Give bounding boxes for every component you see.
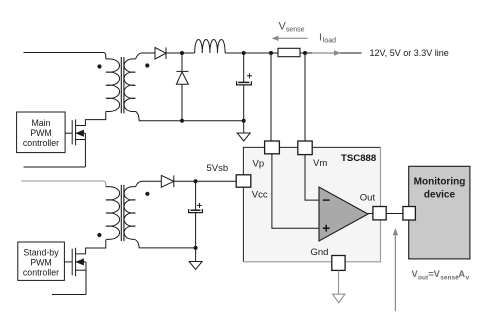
- svg-text:Gnd: Gnd: [311, 247, 329, 258]
- wire T2 secondary bottom lead: [136, 240, 196, 248]
- MOSFET Q1: [65, 119, 85, 167]
- transformer T1 core: [121, 57, 124, 113]
- ground main output: [237, 121, 250, 141]
- capacitor C2: [189, 181, 203, 248]
- wire Q1 source return rail: [24, 166, 86, 168]
- label Stand-by PWM controller: [23, 248, 59, 278]
- svg-text:Vp: Vp: [253, 159, 265, 170]
- wire T1 secondary bottom lead: [136, 111, 244, 120]
- svg-text:Out: Out: [360, 193, 376, 204]
- svg-text:=V: =V: [428, 269, 440, 279]
- arrow Iload direction: [312, 50, 341, 55]
- svg-text:Vm: Vm: [313, 158, 327, 169]
- wire opamp output: [368, 213, 373, 215]
- pin monitoring input: [403, 207, 416, 221]
- node junction standby bottom: [194, 246, 198, 250]
- svg-text:device: device: [424, 190, 456, 201]
- svg-text:PWM: PWM: [30, 128, 52, 138]
- arrow Vout (gray, up): [393, 228, 399, 311]
- node junction bottom rail x243.7: [242, 119, 246, 123]
- arrow Vsense direction: [272, 36, 308, 41]
- wire sense to Vp pin: [270, 53, 272, 141]
- wire 5Vsb rail: [174, 180, 236, 182]
- op-amp U1 triangle: [319, 187, 368, 241]
- T1 secondary polarity dot: [145, 63, 149, 67]
- svg-text:v: v: [466, 274, 470, 281]
- transformer T1 primary winding: [106, 59, 120, 112]
- node junction top rail x305: [303, 51, 307, 55]
- wire Q2 source return rail: [52, 294, 86, 296]
- T1 primary polarity dot: [97, 64, 101, 68]
- wire top rail resistor to end: [300, 52, 362, 54]
- svg-text:Stand-by: Stand-by: [23, 248, 59, 258]
- svg-text:12V, 5V or 3.3V line: 12V, 5V or 3.3V line: [370, 48, 449, 58]
- wire top rail L1 to resistor: [225, 52, 278, 54]
- wire T2 secondary top lead: [136, 181, 162, 187]
- node junction top rail x271: [269, 51, 273, 55]
- diode D1 forward: [155, 48, 166, 60]
- ground IC gnd: [333, 294, 345, 303]
- ground standby: [189, 248, 202, 270]
- T2 primary polarity dot: [97, 233, 101, 237]
- wire main primary top rail: [24, 53, 106, 60]
- svg-text:.A: .A: [456, 269, 466, 279]
- svg-text:TSC888: TSC888: [341, 153, 377, 164]
- opamp minus sign: [323, 199, 330, 201]
- wire top rail D1 to L1: [166, 52, 195, 54]
- transformer T1 secondary winding: [124, 59, 135, 112]
- inductor L1: [195, 40, 225, 54]
- wire T1 primary bottom lead to Q1 drain: [76, 111, 106, 125]
- diode D2 freewheeling: [176, 53, 188, 121]
- capacitor C1: [237, 53, 252, 121]
- label Vout formula: [412, 269, 470, 281]
- node junction top rail x243.7: [242, 51, 246, 55]
- svg-text:Monitoring: Monitoring: [414, 177, 466, 188]
- MOSFET Q2: [64, 248, 86, 295]
- svg-text:controller: controller: [23, 138, 59, 148]
- svg-text:Main: Main: [31, 118, 50, 128]
- svg-text:5Vsb: 5Vsb: [207, 163, 229, 174]
- pin Vcc: [236, 175, 251, 187]
- svg-text:sense: sense: [286, 27, 305, 34]
- svg-text:load: load: [323, 38, 336, 45]
- wire Out pin to monitoring pin: [386, 213, 403, 215]
- wire Gnd pin to ground (gray): [338, 270, 340, 294]
- wire T2 primary bottom lead to Q2 drain: [76, 240, 106, 254]
- pin Vp: [265, 141, 280, 154]
- svg-text:PWM: PWM: [30, 258, 52, 268]
- label Monitoring device: [414, 177, 466, 201]
- wire T1 secondary top lead: [136, 53, 156, 59]
- svg-text:controller: controller: [23, 268, 59, 278]
- pin Gnd: [332, 256, 345, 271]
- transformer T2 core: [121, 185, 124, 241]
- node junction top rail x182: [180, 51, 184, 55]
- wire standby feed (gray): [21, 181, 106, 187]
- box Main PWM controller: [17, 112, 66, 153]
- box Stand-by PWM controller: [18, 242, 65, 280]
- T2 secondary polarity dot: [145, 192, 149, 196]
- svg-text:Vcc: Vcc: [252, 190, 268, 201]
- transformer T2 primary winding: [106, 187, 120, 240]
- svg-text:I: I: [319, 32, 322, 44]
- diode D3 standby: [161, 175, 174, 187]
- box Monitoring device: [409, 166, 470, 259]
- wire sense to Vm pin: [304, 53, 306, 141]
- label Main PWM controller: [23, 118, 59, 148]
- opamp plus sign: [323, 225, 330, 232]
- node junction bottom rail x182: [180, 119, 184, 123]
- node junction 5Vsb x195.5: [194, 179, 198, 183]
- resistor Rsense: [278, 48, 300, 56]
- IC U1 TSC888 body: [243, 147, 380, 261]
- pin Vm: [298, 141, 312, 155]
- pin Out: [373, 207, 386, 220]
- transformer T2 secondary winding: [124, 187, 135, 240]
- wire Vp to noninverting input: [272, 154, 319, 228]
- wire Vm to inverting input: [305, 155, 319, 201]
